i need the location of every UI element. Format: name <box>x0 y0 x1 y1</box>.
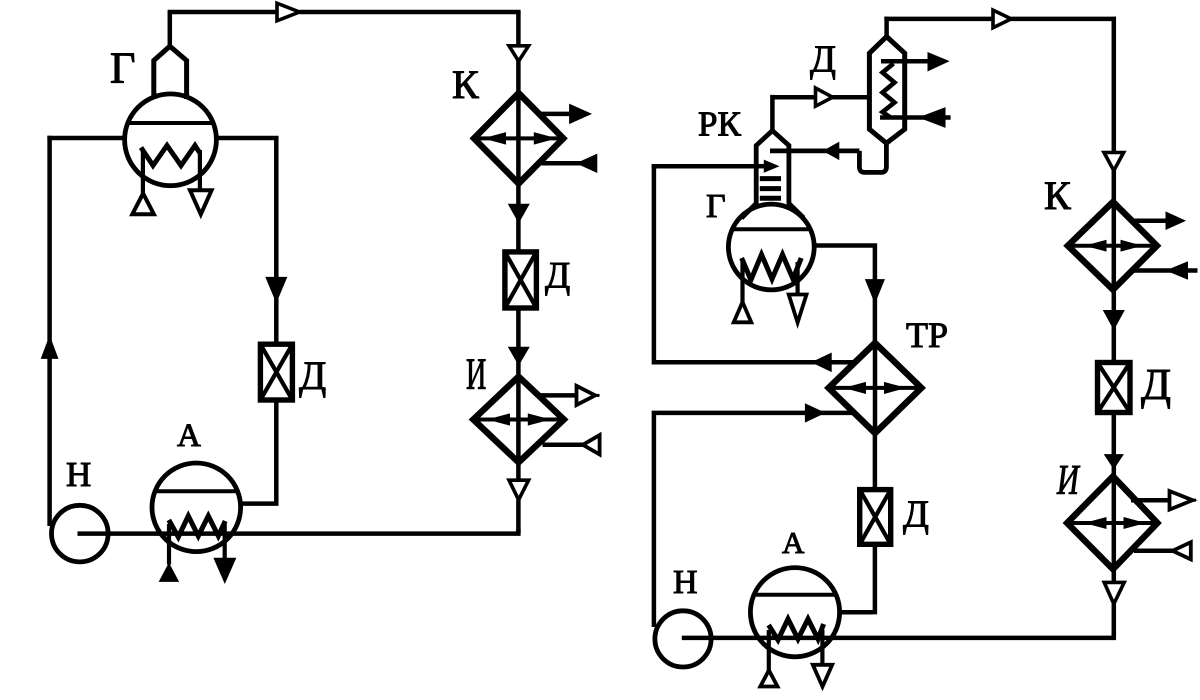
heat exchanger TR (diamond) <box>829 343 922 433</box>
svg-text:К: К <box>1044 173 1071 218</box>
wire: D4 up to heat exchanger TR <box>873 433 878 489</box>
evaporator I2 (diamond) <box>1067 476 1157 569</box>
A2 coolant inlet arrow (hollow up) <box>760 670 777 686</box>
I2 chilled-out arrow (hollow right) <box>1170 491 1193 510</box>
RK packing hatch 2 <box>760 186 781 191</box>
TR internal vertical stream <box>873 343 878 433</box>
D5 coolant-in line (bottom right) <box>880 115 951 120</box>
A cooling coil zigzag <box>169 516 225 537</box>
K2 internal stream line <box>1068 244 1157 248</box>
wire: down into condenser K2 <box>1112 17 1117 153</box>
dephlegmator D5 (vessel) <box>869 37 904 144</box>
wire: A2 right port up through D4 <box>840 545 875 615</box>
wire: K column down to throttle D1 <box>516 61 521 252</box>
I chilled-in arrow (hollow left) <box>583 435 600 454</box>
D5 coolant-out arrow (filled right) <box>928 53 948 71</box>
flow arrow (hollow, right) on top run <box>993 10 1011 28</box>
wire: left riser down to pump <box>47 136 52 526</box>
wire: top run to condenser <box>168 10 521 15</box>
svg-text:А: А <box>177 418 201 454</box>
flow arrow (hollow, down) above K2 <box>1104 153 1124 171</box>
condenser K2 (diamond) <box>1068 202 1157 290</box>
absorber A2 (shell) <box>750 568 839 657</box>
flow arrow (hollow, down) below I <box>509 480 529 500</box>
A2 cooling coil zigzag <box>769 619 824 640</box>
A coolant inlet line <box>167 524 171 565</box>
I2 chilled-in arrow (hollow left) <box>1173 542 1191 559</box>
wire: K2 column down to throttle D3 <box>1112 170 1117 362</box>
evaporator I (diamond) <box>473 377 564 463</box>
G2 heating outlet line <box>795 262 799 295</box>
wire: G left port to left riser <box>47 136 124 141</box>
RK flare to generator shell left <box>741 203 756 218</box>
I2 chilled-in line (bottom right) <box>1134 549 1173 554</box>
A coolant inlet arrow (filled up) <box>160 564 179 582</box>
svg-text:Г: Г <box>110 44 135 93</box>
K2 coolant-in arrow (filled left) <box>1167 262 1188 279</box>
K2 heat-out line (top right) <box>1131 218 1170 223</box>
flow arrow (filled, down) between K2 and D3 <box>1104 311 1124 330</box>
G heating outlet arrow (hollow down) <box>190 190 212 214</box>
throttle D4 (solution branch) <box>860 490 891 545</box>
G2 heating outlet arrow (hollow down) <box>789 295 807 323</box>
I2 internal arrowhead right <box>1124 518 1144 529</box>
wire: TR upper-left to left riser (strong solution out) <box>652 165 855 365</box>
pump N (circle) <box>52 505 109 562</box>
throttle D2 (solution branch) <box>260 344 292 400</box>
flow arrow (filled, right) on TR lower-left line <box>805 404 824 422</box>
generator G (shell) <box>125 94 217 186</box>
RK packing hatch 3 <box>760 196 781 201</box>
A2 liquid-level chord <box>754 593 836 597</box>
flow arrow (hollow, down) below I2 <box>1104 582 1124 604</box>
svg-text:Д: Д <box>810 39 836 81</box>
K2 internal arrowhead left <box>1087 240 1107 251</box>
wire: evaporator outlet to bottom run <box>682 604 1116 638</box>
wire: dephlegmator reflux return to RK <box>770 141 886 172</box>
A2 coolant outlet arrow (hollow down) <box>813 665 832 687</box>
G2 liquid-level chord <box>732 227 810 231</box>
throttle D3 (K2 branch) <box>1098 363 1131 413</box>
reflux arrow (filled left) <box>824 143 839 160</box>
flow arrow (filled, up) on left riser <box>41 337 57 359</box>
generator G2 (shell) <box>728 204 814 290</box>
svg-text:И: И <box>1056 456 1081 503</box>
I internal arrowhead right <box>528 414 549 425</box>
flow arrow (hollow, right) on top run <box>277 3 300 21</box>
A liquid-level chord <box>155 489 237 493</box>
svg-text:Д: Д <box>903 494 929 536</box>
TR internal arrowhead left <box>846 383 866 394</box>
condenser K (diamond) <box>474 93 563 184</box>
flow arrow (filled, down) between K and D1 <box>509 204 529 222</box>
label I <box>466 349 486 398</box>
absorber A (shell) <box>152 463 241 552</box>
wire: down into condenser K <box>516 12 521 46</box>
I chilled-out arrow (hollow right) <box>577 386 596 405</box>
RK packing hatch 1 <box>760 176 781 181</box>
A2 coolant inlet line <box>767 630 771 671</box>
wire: RK vapour riser to dephlegmator <box>770 95 869 131</box>
G heating coil zigzag <box>141 146 200 166</box>
flow arrow (filled, down) between D3 and I2 <box>1105 455 1123 469</box>
TR internal horizontal stream <box>829 386 922 390</box>
G heating medium outlet line <box>198 150 202 191</box>
svg-text:Д: Д <box>299 353 326 398</box>
svg-text:И: И <box>466 349 486 398</box>
throttle D1 (K branch) <box>505 252 537 308</box>
wire: evaporator outlet to bottom run <box>78 500 521 534</box>
generator G (dome) <box>154 46 187 99</box>
K internal arrowhead left <box>485 133 506 144</box>
flow arrow (filled, down) between D1 and I <box>509 347 529 365</box>
pump N2 (circle) <box>655 611 711 667</box>
wire: D2 down to absorber <box>240 400 278 504</box>
I2 internal stream line <box>1067 521 1157 525</box>
flow arrow (filled, left) on TR upper-left line <box>812 353 831 371</box>
svg-text:К: К <box>452 62 479 107</box>
wire: G right port to throttle D2 branch <box>216 136 276 345</box>
I2 chilled-out line (top right) <box>1131 498 1170 503</box>
flow arrow (hollow right) on RK-dephlegmator line <box>816 88 833 106</box>
svg-text:Г: Г <box>706 188 726 225</box>
wire: TR lower-left from pump riser <box>652 411 853 627</box>
wire: RK feed line into column with arrow <box>757 164 767 169</box>
svg-text:РК: РК <box>698 105 741 144</box>
RK feed arrow (filled right) <box>764 160 778 172</box>
I internal arrowhead left <box>489 414 510 425</box>
label I2 <box>1056 456 1081 503</box>
wire: G2 right port down to TR <box>814 243 875 343</box>
wire: throttle D3 to evaporator I2 <box>1112 413 1117 583</box>
I chilled-out line (top right) <box>539 393 578 398</box>
I internal stream line <box>473 418 564 422</box>
wire: top run to condenser K2 <box>884 17 1116 22</box>
svg-text:Д: Д <box>545 256 570 297</box>
flow arrow (filled, down) above D2 <box>266 277 287 302</box>
A coolant outlet line <box>223 524 227 560</box>
G2 heating coil zigzag <box>742 255 802 281</box>
wire: generator dome riser <box>168 12 173 46</box>
svg-text:Н: Н <box>66 455 91 494</box>
svg-text:ТР: ТР <box>906 315 948 355</box>
RK flare to generator shell right <box>788 203 803 218</box>
flow arrow (hollow, down) above K <box>509 46 529 61</box>
K2 heat-out arrow (filled right) <box>1166 212 1185 229</box>
flow arrow (filled, down) above TR <box>866 280 885 303</box>
G liquid-level chord <box>128 121 213 125</box>
wire: dephlegmator top riser <box>884 17 889 37</box>
K heat-out line (top right) <box>541 112 575 117</box>
D5 coolant-in arrow (filled left) <box>920 108 945 127</box>
G2 heating inlet line <box>740 262 744 303</box>
G heating medium inlet line <box>141 151 145 194</box>
K2 internal arrowhead right <box>1121 240 1141 251</box>
A2 coolant outlet line <box>820 630 824 665</box>
D5 cooling coil zigzag <box>883 64 895 118</box>
K coolant-in line (bottom right) <box>542 161 597 166</box>
K coolant-in arrow (filled left) <box>577 154 597 172</box>
G2 heating inlet arrow (hollow up) <box>734 302 752 322</box>
D5 coolant-out line (top right) <box>881 59 931 64</box>
G heating inlet arrow (hollow up) <box>132 193 154 214</box>
A coolant outlet arrow (filled down) <box>214 558 236 583</box>
svg-text:А: А <box>782 525 805 560</box>
svg-text:Н: Н <box>673 564 698 601</box>
K internal stream line <box>474 136 563 140</box>
K2 coolant-in line (bottom right) <box>1134 268 1198 273</box>
K internal arrowhead right <box>534 133 555 144</box>
I2 internal arrowhead left <box>1086 518 1106 529</box>
wire: throttle D1 to evaporator I <box>516 308 521 480</box>
svg-text:Д: Д <box>1141 360 1171 409</box>
rectifier column RK (body) <box>756 131 789 205</box>
K heat-out arrow (filled right) <box>570 104 591 123</box>
TR internal arrowhead right <box>885 383 905 394</box>
wire: left riser top to RK column <box>652 164 757 169</box>
I chilled-in line (bottom right) <box>543 443 584 448</box>
